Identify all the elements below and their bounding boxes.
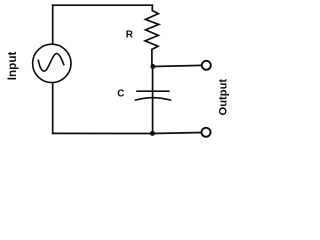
AC source circle <box>33 44 71 82</box>
terminal output top <box>202 61 211 70</box>
svg-text:R: R <box>126 30 134 41</box>
wire left vertical lower <box>52 83 54 133</box>
svg-text:Input: Input <box>6 52 19 81</box>
wire top horizontal <box>53 4 153 6</box>
terminal output bottom <box>202 128 211 137</box>
svg-text:C: C <box>117 89 124 100</box>
wire output top horizontal <box>153 65 202 66</box>
capacitor C top plate <box>137 90 169 92</box>
wire bottom horizontal <box>53 133 202 134</box>
capacitor C bottom plate (curved) <box>136 98 171 100</box>
svg-text:Output: Output <box>218 79 230 116</box>
wire left vertical upper <box>52 5 54 44</box>
AC source sine wave <box>38 54 64 72</box>
junction dot bottom <box>150 131 155 136</box>
resistor R <box>145 5 159 66</box>
junction dot top <box>150 64 155 69</box>
capacitor C lead wire <box>152 66 154 133</box>
